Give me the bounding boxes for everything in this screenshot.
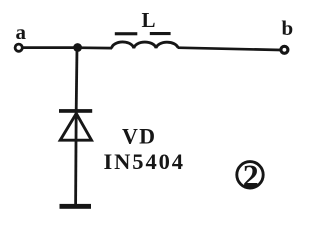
wire inductor to b (178, 48, 282, 50)
wire a to junction (23, 46, 78, 49)
junction dot (73, 43, 82, 52)
svg-text:2: 2 (243, 158, 259, 194)
svg-text:IN5404: IN5404 (104, 149, 185, 174)
wire junction to inductor (77, 46, 112, 49)
svg-text:L: L (142, 8, 156, 32)
figure number circle (237, 162, 263, 188)
diode VD cathode bar (59, 109, 92, 113)
svg-text:VD: VD (122, 124, 156, 149)
svg-text:a: a (16, 20, 27, 44)
terminal a (15, 44, 22, 51)
bottom terminal bar (60, 204, 92, 209)
wire diode to bottom bar (74, 110, 77, 205)
inductor core bar left (115, 32, 138, 35)
inductor L coil (112, 42, 179, 48)
diode VD triangle (60, 114, 91, 141)
inductor core bar right (150, 32, 171, 35)
vertical wire junction to diode (75, 48, 79, 110)
terminal b (281, 46, 288, 53)
svg-text:b: b (282, 16, 294, 40)
